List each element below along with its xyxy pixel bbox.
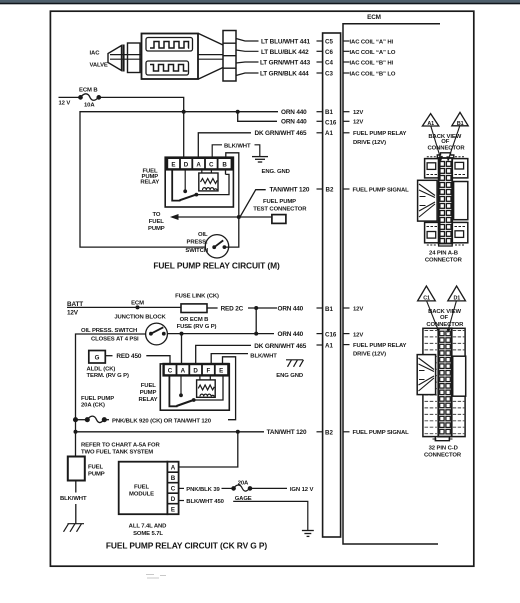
32 pin connector side dashes (425, 331, 466, 434)
fuel pump box (68, 457, 85, 481)
svg-text:ECM: ECM (367, 14, 381, 21)
svg-text:FUEL PUMP: FUEL PUMP (81, 396, 114, 402)
24 pin connector left wedge block (418, 180, 438, 221)
svg-text:OIL: OIL (198, 232, 208, 238)
svg-text:VALVE: VALVE (90, 63, 108, 69)
outer frame (50, 11, 473, 566)
svg-text:OIL PRESS. SWITCH: OIL PRESS. SWITCH (81, 328, 137, 334)
svg-text:C16: C16 (325, 120, 337, 127)
svg-text:ECM: ECM (131, 300, 144, 306)
svg-text:CONNECTOR: CONNECTOR (424, 453, 462, 459)
svg-text:A1: A1 (325, 130, 333, 137)
svg-text:B: B (171, 475, 176, 482)
svg-text:ORN 440: ORN 440 (278, 305, 304, 312)
fuel module box (119, 462, 168, 515)
svg-text:RELAY: RELAY (139, 397, 158, 403)
IAC valve pintle cone (108, 45, 124, 72)
svg-text:10A: 10A (84, 103, 95, 109)
svg-text:FUEL: FUEL (88, 464, 103, 470)
oil switch (CK) contacts (149, 332, 153, 336)
IAC valve flange (128, 43, 141, 73)
faint print smudge below frame (146, 575, 166, 579)
svg-text:BLK/WHT: BLK/WHT (60, 496, 87, 502)
svg-text:RELAY: RELAY (140, 180, 159, 186)
fuel pump test connector box (272, 215, 286, 224)
ground ENG GND (bars) (252, 157, 268, 162)
wire RED 450 to relay C (105, 355, 112, 357)
svg-text:C: C (171, 486, 176, 493)
svg-text:FUEL PUMP RELAY: FUEL PUMP RELAY (353, 131, 407, 137)
svg-text:F: F (207, 367, 211, 374)
relay CK internal coil stubs (200, 375, 210, 380)
wire 12V feed (59, 96, 81, 98)
svg-text:TERM. (RV G P): TERM. (RV G P) (87, 373, 129, 379)
svg-text:B1: B1 (325, 109, 333, 116)
IAC valve body (142, 34, 199, 80)
wire branch RED 2C down to C16 row (255, 308, 257, 334)
32 pin connector center pin columns (438, 328, 451, 436)
svg-text:FUEL PUMP RELAY CIRCUIT (CK R: FUEL PUMP RELAY CIRCUIT (CK RV G P) (106, 541, 268, 551)
fuse FUEL PUMP 20A (CK) (74, 416, 109, 422)
svg-text:PNK/BLK 39: PNK/BLK 39 (186, 487, 220, 493)
junction dot TAN/WHT row left (74, 430, 78, 434)
relay CK internal E wire (194, 375, 223, 400)
wire left branch to oil switch (80, 112, 206, 247)
svg-text:TEST CONNECTOR: TEST CONNECTOR (253, 207, 307, 213)
wire BATT feed (67, 306, 181, 308)
wire RED 2C (207, 307, 218, 309)
svg-text:CONNECTOR: CONNECTOR (426, 322, 464, 328)
svg-text:IAC COIL “B” HI: IAC COIL “B” HI (350, 60, 394, 66)
relay M coil box (199, 173, 218, 191)
wire 12V drive down to relay D (183, 112, 185, 157)
svg-text:SOME 5.7L: SOME 5.7L (133, 531, 163, 537)
svg-text:OF: OF (441, 139, 449, 145)
svg-text:IAC COIL “B” LO: IAC COIL “B” LO (350, 72, 396, 78)
svg-text:ORN 440: ORN 440 (281, 119, 307, 126)
wire TO FUEL PUMP with arrowhead (172, 216, 272, 218)
svg-text:C4: C4 (325, 59, 333, 66)
oil pressure switch (M) circle (205, 235, 228, 258)
wire LT GRN/WHT 443 (236, 62, 259, 63)
relay CK coil box (197, 380, 216, 397)
svg-text:B2: B2 (325, 429, 333, 436)
24 pin connector top left cavity (425, 157, 440, 178)
ground ENG GND chassis (CK) (286, 360, 304, 367)
ALDL G box (89, 351, 106, 364)
svg-text:JUNCTION BLOCK: JUNCTION BLOCK (114, 315, 166, 321)
wire module C PNK/BLK 39 (179, 487, 184, 489)
relay CK internal A contact (180, 375, 182, 394)
wire DK GRN/WHT 465 row A1 (198, 133, 251, 157)
ECM box (open right side) (343, 24, 440, 544)
svg-text:IAC: IAC (90, 51, 101, 57)
svg-text:LT GRN/WHT 443: LT GRN/WHT 443 (260, 60, 311, 67)
top header bar (0, 0, 520, 3)
svg-text:TWO FUEL TANK SYSTEM: TWO FUEL TANK SYSTEM (81, 450, 153, 456)
svg-text:FUSE LINK (CK): FUSE LINK (CK) (175, 293, 219, 299)
svg-text:BLK/WHT 450: BLK/WHT 450 (186, 499, 224, 505)
IAC connector funnel (199, 34, 224, 80)
relay M internal B wire (225, 169, 227, 174)
svg-text:12V: 12V (353, 332, 363, 338)
fuse GAGE 20A (232, 485, 287, 491)
svg-text:DRIVE (12V): DRIVE (12V) (353, 140, 386, 146)
svg-text:FUEL PUMP RELAY CIRCUIT (M): FUEL PUMP RELAY CIRCUIT (M) (153, 261, 280, 271)
svg-text:SWITCH: SWITCH (185, 248, 208, 254)
svg-text:G: G (95, 355, 100, 362)
junction dot fuel pump feed (237, 215, 241, 219)
wire LT GRN/BLK 444 (236, 73, 259, 76)
IAC valve shaft (110, 55, 223, 60)
svg-text:DRIVE (12V): DRIVE (12V) (353, 352, 386, 358)
svg-text:ECM B: ECM B (79, 88, 97, 94)
32 pin connector right rect block (453, 356, 466, 396)
svg-text:IAC COIL “A” LO: IAC COIL “A” LO (350, 50, 396, 56)
svg-text:A: A (171, 465, 176, 472)
svg-text:C6: C6 (325, 49, 333, 56)
svg-text:C: C (168, 367, 173, 374)
leader arrows to 32 pin connector (427, 301, 457, 330)
IAC coil A window (146, 38, 193, 52)
svg-text:CONNECTOR: CONNECTOR (425, 257, 463, 263)
svg-text:BLK/WHT: BLK/WHT (250, 353, 277, 359)
svg-text:RED 2C: RED 2C (221, 305, 244, 312)
svg-text:C5: C5 (325, 39, 333, 46)
svg-text:D1: D1 (453, 296, 460, 302)
24 pin connector top cap (437, 153, 454, 159)
svg-text:TO: TO (153, 212, 161, 218)
svg-text:FUEL PUMP SIGNAL: FUEL PUMP SIGNAL (353, 188, 410, 194)
svg-text:C16: C16 (325, 332, 337, 339)
wire oil switch to ORN 440 C16 row (167, 333, 274, 335)
24 pin connector top right cavity (452, 157, 468, 178)
svg-text:PNK/BLK 920 (CK) OR TAN/WHT 12: PNK/BLK 920 (CK) OR TAN/WHT 120 (112, 418, 212, 424)
svg-text:CONNECTOR: CONNECTOR (428, 146, 466, 152)
relay CK terminal row (164, 364, 229, 375)
svg-text:IAC COIL “A” HI: IAC COIL “A” HI (350, 39, 394, 45)
svg-text:C3: C3 (325, 71, 333, 78)
triangle B1 (452, 112, 468, 125)
wire TAN/WHT 120 diagonal (240, 190, 266, 217)
svg-text:FUEL: FUEL (149, 219, 164, 225)
svg-text:GAGE: GAGE (235, 496, 252, 502)
svg-text:B: B (222, 161, 227, 168)
wire oil switch left branch (76, 334, 146, 457)
relay M internal D contact (184, 169, 186, 190)
svg-text:D: D (171, 496, 176, 503)
leader arrows to 24 pin connector (431, 126, 460, 159)
svg-text:12V: 12V (353, 120, 363, 126)
svg-text:20A (CK): 20A (CK) (81, 402, 105, 408)
svg-text:12 V: 12 V (59, 101, 71, 107)
wire TAN/WHT 120 row B2 (lower) (76, 431, 265, 433)
svg-text:ENG GND: ENG GND (276, 373, 303, 379)
IAC connector pin block (223, 31, 236, 82)
oil switch contacts (212, 245, 216, 249)
32 pin connector left wedge block (417, 355, 435, 395)
24 pin connector right rect block (454, 182, 468, 220)
IAC coil B window (146, 61, 189, 75)
triangle D1 (448, 286, 466, 301)
svg-text:D: D (193, 367, 198, 374)
wire relay D to DK GRN/WHT 465 row A1 (196, 345, 251, 363)
relay M coil zigzag (201, 179, 218, 184)
relay M internal E wire (172, 169, 180, 200)
svg-text:24 PIN A-B: 24 PIN A-B (429, 251, 458, 257)
svg-text:32 PIN C-D: 32 PIN C-D (429, 446, 458, 452)
fuel module terminals A-E (167, 462, 178, 515)
relay M enclosure (165, 157, 233, 207)
svg-text:FUEL PUMP SIGNAL: FUEL PUMP SIGNAL (353, 430, 410, 436)
wire oil switch down to relay A (181, 334, 183, 364)
svg-text:12V: 12V (353, 110, 363, 116)
svg-text:CLOSES AT 4 PSI: CLOSES AT 4 PSI (91, 336, 139, 342)
oil pressure switch (CK) circle (146, 323, 168, 345)
svg-text:TAN/WHT 120: TAN/WHT 120 (270, 187, 310, 194)
svg-text:BLK/WHT: BLK/WHT (224, 143, 251, 149)
fuse ECM B 10A (79, 94, 101, 100)
wire fuse to corner (99, 97, 184, 111)
24 pin connector center pin columns (439, 158, 453, 244)
fuse link box (181, 304, 207, 313)
svg-text:E: E (171, 507, 175, 514)
svg-text:E: E (219, 367, 223, 374)
wire ORN 440 row B1 (184, 111, 278, 113)
svg-text:FUSE (RV G P): FUSE (RV G P) (177, 324, 217, 330)
relay CK coil loops (200, 394, 214, 396)
svg-text:D: D (184, 161, 189, 168)
ground GAGE (bars) (302, 531, 314, 537)
svg-text:C1: C1 (423, 296, 430, 302)
svg-text:ALDL (CK): ALDL (CK) (87, 367, 116, 373)
svg-text:A: A (181, 367, 186, 374)
svg-text:LT BLU/WHT 441: LT BLU/WHT 441 (261, 38, 311, 45)
svg-text:FUEL: FUEL (134, 484, 149, 490)
junction dot ORN 440 (182, 110, 186, 114)
junction dot RED 2C (254, 306, 258, 310)
junction block dot (136, 305, 140, 309)
relay M internal coil stubs (202, 169, 212, 173)
relay M terminal row (167, 158, 232, 170)
svg-text:OF: OF (440, 315, 448, 321)
wire relay F to BLK/WHT ground (211, 354, 248, 364)
wire LT BLU/WHT 441 (236, 39, 259, 42)
svg-text:12V: 12V (67, 309, 79, 316)
svg-text:TAN/WHT 120: TAN/WHT 120 (267, 429, 307, 436)
wire B to fuel pump feed (225, 153, 239, 247)
wire LT BLU/BLK 442 (236, 50, 259, 51)
svg-text:PUMP: PUMP (88, 472, 105, 478)
wire ORN 440 row C16 (238, 112, 277, 122)
triangle A1 (422, 114, 438, 126)
24 pin connector bottom foot (439, 244, 453, 247)
relay M coil loops (203, 188, 218, 190)
svg-text:FUEL: FUEL (141, 383, 156, 389)
relay M switch blade (180, 195, 197, 201)
svg-text:ORN 440: ORN 440 (278, 331, 304, 338)
24 pin connector bottom right cavity (452, 222, 468, 245)
svg-text:DK GRN/WHT 465: DK GRN/WHT 465 (254, 343, 306, 350)
wire BLK/WHT leader to C terminal (212, 145, 222, 157)
24 pin connector bottom left cavity (425, 222, 440, 245)
svg-text:E: E (171, 161, 175, 168)
relay CK enclosure (160, 364, 229, 410)
svg-text:ORN 440: ORN 440 (281, 109, 307, 116)
svg-text:FUEL PUMP: FUEL PUMP (263, 199, 296, 205)
terminal letters C A D F E (168, 367, 224, 374)
svg-text:A: A (196, 161, 201, 168)
svg-text:PUMP: PUMP (140, 390, 157, 396)
svg-text:REFER TO CHART A-5A FOR: REFER TO CHART A-5A FOR (81, 442, 160, 448)
svg-text:ALL 7.4L AND: ALL 7.4L AND (129, 523, 167, 529)
svg-text:IGN 12 V: IGN 12 V (290, 487, 314, 493)
svg-text:A1: A1 (325, 342, 333, 349)
relay CK coil zigzag (198, 385, 214, 390)
triangle C1 (418, 286, 436, 301)
svg-text:B1: B1 (325, 306, 333, 313)
svg-text:PRESS.: PRESS. (186, 239, 207, 245)
wire module A to TAN/WHT row (179, 432, 238, 467)
32 pin connector body (423, 328, 465, 436)
svg-text:LT GRN/BLK 444: LT GRN/BLK 444 (260, 71, 309, 78)
relay CK internal C wire (169, 375, 177, 406)
ground fuel pump chassis (64, 524, 85, 532)
svg-text:DK GRN/WHT 465: DK GRN/WHT 465 (255, 130, 307, 137)
wire relay E to PNK/BLK 920 (223, 357, 236, 420)
svg-text:MODULE: MODULE (129, 492, 154, 498)
svg-text:LT BLU/BLK 442: LT BLU/BLK 442 (261, 49, 309, 56)
connector pin strip (323, 33, 341, 537)
svg-text:12V: 12V (353, 307, 363, 313)
wire fuel pump to ground (75, 481, 77, 524)
terminal letters E D A C B (171, 161, 227, 168)
svg-text:RED 450: RED 450 (116, 353, 141, 360)
svg-text:B1: B1 (457, 121, 464, 127)
svg-text:B2: B2 (326, 187, 334, 194)
wire BLK/WHT to ground (255, 145, 260, 156)
svg-text:20A: 20A (238, 480, 249, 486)
svg-text:FUEL PUMP RELAY: FUEL PUMP RELAY (353, 343, 407, 349)
svg-text:ENG. GND: ENG. GND (262, 169, 290, 175)
svg-text:PUMP: PUMP (148, 226, 165, 232)
wire module D BLK/WHT 450 (179, 500, 184, 502)
svg-text:C: C (209, 161, 214, 168)
32 pin connector bottom foot (435, 437, 449, 441)
svg-text:OR ECM B: OR ECM B (180, 317, 209, 323)
relay CK switch blade (177, 400, 194, 406)
